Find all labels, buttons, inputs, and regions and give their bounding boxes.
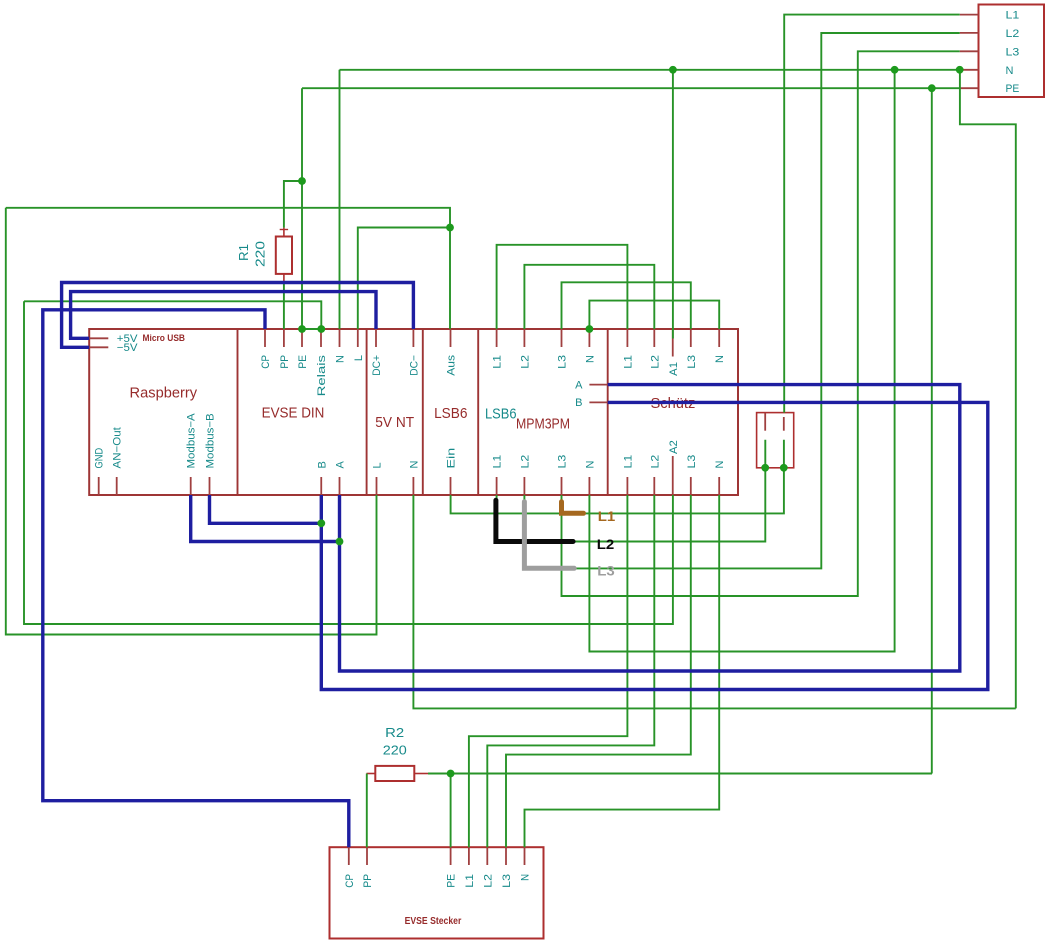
svg-text:L2: L2 <box>482 874 494 888</box>
module block outline <box>89 329 738 495</box>
pin L <box>376 477 378 495</box>
svg-text:A: A <box>575 379 583 391</box>
wire MPM3PM L2 to Schütz L2 <box>524 265 654 329</box>
pin N <box>412 477 414 495</box>
wire -5V to DC- <box>62 283 414 348</box>
pin aux left <box>764 413 766 431</box>
svg-text:Relais: Relais <box>316 354 328 396</box>
svg-text:L: L <box>353 355 365 361</box>
pin L2 stecker <box>486 847 488 865</box>
pin PP <box>283 329 285 347</box>
wire MPM3PM N to Schütz N <box>589 301 719 329</box>
svg-text:PE: PE <box>446 874 458 888</box>
wire PE horizontal net <box>302 87 960 89</box>
svg-text:N: N <box>714 461 726 469</box>
svg-text:Aus: Aus <box>446 354 458 375</box>
wire N horizontal net <box>340 69 960 71</box>
pin PE stecker <box>450 847 452 865</box>
wire R2 right to PE junction <box>428 773 451 775</box>
pin L3 <box>561 477 563 495</box>
divider Raspberry/EVSE DIN <box>237 329 239 495</box>
pin -5V <box>89 346 108 348</box>
wire PE to EVSE Stecker PE pin <box>450 774 452 848</box>
svg-text:A: A <box>335 461 347 469</box>
svg-text:N: N <box>1006 65 1014 77</box>
svg-text:N: N <box>584 355 596 363</box>
svg-text:A2: A2 <box>668 440 680 454</box>
pin L2 supply <box>960 32 979 34</box>
svg-text:DC−: DC− <box>408 355 420 376</box>
divider 5V NT/LSB6 <box>422 329 424 495</box>
divider EVSE DIN/5V NT <box>366 329 368 495</box>
pin B <box>320 477 322 495</box>
svg-text:L2: L2 <box>597 536 615 552</box>
svg-text:PP: PP <box>279 355 291 369</box>
svg-text:Raspberry: Raspberry <box>130 385 198 402</box>
pin DC− <box>412 329 414 347</box>
wire B net (Schütz B to EVSE DIN B) <box>321 402 988 689</box>
pin L3 <box>690 329 692 347</box>
resistor R1 220 <box>283 228 285 237</box>
wire Schütz L2 out to EVSE Stecker L2 <box>487 495 654 847</box>
svg-text:5V NT: 5V NT <box>375 414 414 431</box>
svg-text:EVSE DIN: EVSE DIN <box>262 404 325 421</box>
pin Ein <box>450 477 452 495</box>
connector EVSE Stecker <box>330 847 544 938</box>
resistor R2 220 <box>367 773 376 775</box>
pin A1 <box>672 330 674 357</box>
wire MPM3PM L1 to Schütz L1 <box>497 245 628 329</box>
svg-text:L1: L1 <box>622 455 634 469</box>
svg-text:R2: R2 <box>385 726 404 740</box>
svg-text:L1: L1 <box>622 355 634 369</box>
svg-text:L3: L3 <box>597 563 615 579</box>
wire PE bottom row <box>428 773 932 775</box>
svg-text:R1: R1 <box>237 244 251 261</box>
svg-text:L3: L3 <box>1006 46 1020 58</box>
svg-text:PE: PE <box>297 355 309 369</box>
svg-text:B: B <box>575 397 582 409</box>
wire N branch right loop <box>960 70 1016 709</box>
junction aux right <box>780 464 788 472</box>
svg-text:L3: L3 <box>557 355 569 369</box>
junction L net <box>446 224 454 232</box>
pin L2 <box>523 329 525 347</box>
pin +5V <box>89 337 108 339</box>
wire Modbus-A <box>191 495 340 542</box>
cable L1 brown <box>562 502 584 514</box>
pin N <box>339 329 341 347</box>
svg-text:N: N <box>584 461 596 469</box>
pin N stecker <box>524 847 526 865</box>
junction R2/PE <box>447 770 455 778</box>
svg-text:L2: L2 <box>649 455 661 469</box>
svg-text:PE: PE <box>1006 83 1020 95</box>
svg-text:N: N <box>714 355 726 363</box>
pin Relais <box>320 329 322 347</box>
svg-text:L3: L3 <box>557 455 569 469</box>
wire MPM3PM L2 bottom pin stub <box>524 33 959 568</box>
svg-text:N: N <box>335 355 347 363</box>
pin L2 <box>653 329 655 347</box>
junction N/A1 <box>669 66 677 74</box>
connector J1 (supply L1 L2 L3 N PE) <box>979 5 1045 98</box>
svg-text:220: 220 <box>383 744 407 758</box>
pin N supply <box>960 69 979 71</box>
pin B <box>589 401 607 403</box>
contactor aux contact K1 <box>757 413 794 468</box>
svg-text:EVSE Stecker: EVSE Stecker <box>405 915 462 927</box>
svg-text:L1: L1 <box>1006 10 1020 22</box>
svg-text:PP: PP <box>362 874 374 888</box>
junction N pin branch <box>956 66 964 74</box>
wire L net top row <box>6 208 450 329</box>
svg-text:Ein: Ein <box>446 448 458 469</box>
wire Relais net to EVSE DIN Relais pin <box>24 301 321 329</box>
svg-text:L3: L3 <box>686 455 698 469</box>
svg-text:L1: L1 <box>492 455 504 469</box>
svg-text:DC+: DC+ <box>371 355 383 376</box>
svg-text:L2: L2 <box>1006 28 1020 40</box>
pin L1 <box>626 329 628 347</box>
pin N <box>588 329 590 347</box>
svg-text:N: N <box>520 874 532 881</box>
pin N <box>588 477 590 495</box>
wire PE right column <box>931 88 933 773</box>
pin CP <box>264 329 266 347</box>
wire Schütz L1 out to EVSE Stecker L1 <box>469 495 628 847</box>
junction Modbus-A/A <box>336 538 344 546</box>
svg-text:Modbus−B: Modbus−B <box>205 413 217 468</box>
svg-text:Modbus−A: Modbus−A <box>186 413 198 469</box>
svg-text:CP: CP <box>344 874 356 888</box>
pin CP stecker <box>348 847 350 865</box>
svg-text:L3: L3 <box>686 355 698 369</box>
wire Schütz N out to EVSE Stecker N <box>525 495 720 847</box>
svg-text:CP: CP <box>260 355 272 369</box>
svg-text:L: L <box>372 462 384 468</box>
svg-text:L2: L2 <box>519 455 531 469</box>
svg-text:MPM3PM: MPM3PM <box>516 415 570 432</box>
pin N <box>718 477 720 495</box>
wire 5V NT N pin to N branch <box>413 495 1015 708</box>
wire MPM3PM L3 to Schütz L3 <box>562 282 691 329</box>
pin Aus <box>450 329 452 347</box>
resistor R1 pin-end tick <box>280 229 288 231</box>
pin L1 <box>626 477 628 495</box>
pin L3 stecker <box>505 847 507 865</box>
pin PE supply <box>960 87 979 89</box>
wire PE to EVSE DIN PE pin <box>301 88 303 329</box>
pin L2 <box>653 477 655 495</box>
svg-text:L2: L2 <box>649 355 661 369</box>
svg-text:AN−Out: AN−Out <box>112 427 124 468</box>
wire N branch to Schütz A1 <box>672 70 674 339</box>
pin A <box>339 477 341 495</box>
junction Modbus-B/B <box>317 519 325 527</box>
junction aux left <box>761 464 769 472</box>
divider LSB6/MPM3PM <box>477 329 479 495</box>
svg-text:A1: A1 <box>668 362 680 376</box>
pin L3 supply <box>960 50 979 52</box>
wire CP net (EVSE DIN to EVSE Stecker) <box>43 310 349 847</box>
svg-text:B: B <box>316 461 328 468</box>
wire R2 to EVSE Stecker PP pin <box>366 774 368 848</box>
svg-text:LSB6: LSB6 <box>485 406 517 423</box>
cable L2 black <box>496 500 573 541</box>
svg-text:L1: L1 <box>464 874 476 888</box>
wire +5V to DC+ <box>71 292 376 339</box>
wire Schütz L3 out to EVSE Stecker L3 <box>506 495 691 847</box>
svg-text:−5V: −5V <box>117 342 138 354</box>
pin N <box>718 329 720 347</box>
junction Relais pin <box>317 325 325 333</box>
pin L <box>357 329 359 347</box>
wire L1 from connector pin to junction column <box>784 15 960 413</box>
wire L1 through contactor contact down to cable row <box>451 440 784 514</box>
wire L net left loop to 5V NT L pin <box>6 208 377 635</box>
pin L2 <box>523 477 525 495</box>
svg-text:L2: L2 <box>519 355 531 369</box>
divider MPM3PM/Schütz <box>607 329 609 495</box>
junction N/right column <box>891 66 899 74</box>
pin AN−Out <box>116 477 118 495</box>
pin PP stecker <box>366 847 368 865</box>
svg-text:GND: GND <box>94 448 106 469</box>
cable L3 grey <box>524 502 574 569</box>
wire PE branch to R1 <box>284 181 302 228</box>
wire L2 cable row to contactor aux-left <box>497 440 766 542</box>
svg-text:L3: L3 <box>501 874 513 888</box>
junction PE/R1 <box>298 177 306 185</box>
pin GND <box>98 477 100 495</box>
pin aux right <box>783 417 785 431</box>
pin L1 stecker <box>468 847 470 865</box>
pin L3 <box>561 329 563 347</box>
wire MPM3PM N bottom to N net <box>589 70 894 652</box>
junction PE pin <box>298 325 306 333</box>
wire R1 to PP pin <box>283 282 285 330</box>
pin L1 <box>496 477 498 495</box>
pin L3 <box>690 477 692 495</box>
pin A <box>589 384 607 386</box>
pin Modbus−B <box>209 477 211 495</box>
wire A net (Schütz A to EVSE DIN A) <box>340 385 960 671</box>
svg-text:N: N <box>408 461 420 469</box>
wire Modbus-B <box>210 495 322 523</box>
pin L1 supply <box>960 14 979 16</box>
svg-text:LSB6: LSB6 <box>434 405 467 422</box>
svg-text:Micro USB: Micro USB <box>143 333 186 343</box>
wire PE-Relais strap <box>302 328 321 330</box>
wire N to EVSE DIN N pin <box>339 70 341 329</box>
pin Modbus−A <box>190 477 192 495</box>
junction PE column <box>928 84 936 92</box>
pin DC+ <box>375 329 377 347</box>
pin L1 <box>496 329 498 347</box>
wire L branch to EVSE DIN L pin <box>358 228 450 330</box>
svg-text:220: 220 <box>253 241 267 267</box>
svg-text:L1: L1 <box>492 355 504 369</box>
svg-text:L1: L1 <box>598 508 616 524</box>
junction MPM3PM N pin <box>586 325 594 333</box>
wire Relais net left loop to Schütz A2 <box>24 301 673 624</box>
pin A2 <box>672 456 674 495</box>
wire MPM3PM L3 bottom to connector L3 <box>562 51 960 596</box>
pin PE <box>301 329 303 347</box>
